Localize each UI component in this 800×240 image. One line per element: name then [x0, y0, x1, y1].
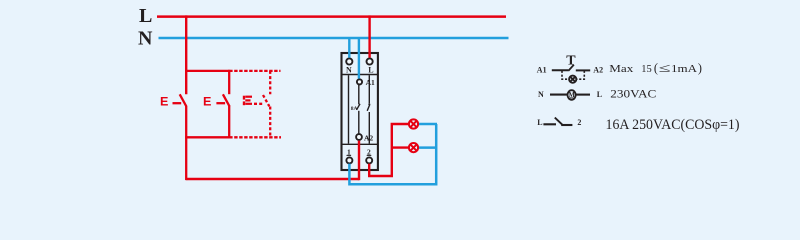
- svg-text:L: L: [139, 5, 152, 27]
- svg-text:A1: A1: [537, 65, 547, 74]
- svg-text:Max: Max: [609, 63, 634, 75]
- svg-text:L: L: [537, 118, 542, 127]
- module internal output contact: [367, 75, 370, 143]
- wire terminal 2 to lamps (red): [369, 124, 409, 176]
- wire terminal A2 down: [358, 141, 360, 181]
- wire L bus (red): [157, 15, 506, 18]
- wire switch top branch (solid): [185, 70, 229, 72]
- terminal L circle: [367, 58, 373, 64]
- svg-text:E: E: [203, 95, 211, 109]
- svg-text:16A 250VAC(COSφ=1): 16A 250VAC(COSφ=1): [606, 117, 740, 133]
- svg-text:(: (: [654, 61, 658, 75]
- relay module body: [342, 53, 378, 170]
- svg-text:L: L: [368, 65, 373, 74]
- svg-text:): ): [698, 61, 702, 75]
- wire L-bus drop to switches: [185, 15, 187, 94]
- legend row1 pushbutton symbol: [552, 65, 590, 71]
- svg-text:230VAC: 230VAC: [610, 86, 656, 100]
- switch E1 contact: [173, 94, 187, 180]
- svg-text:N: N: [538, 90, 544, 99]
- terminal A1 circle: [357, 79, 362, 84]
- switch E3 label (dashed): [244, 96, 252, 106]
- svg-text:A2: A2: [593, 65, 603, 74]
- wire terminal 1 to lamp return (blue): [349, 124, 436, 184]
- legend row1 lamp: [569, 76, 576, 83]
- svg-text:E: E: [160, 95, 168, 109]
- wire switch bottom junction (solid): [185, 136, 229, 138]
- wire bottom run to A2: [186, 178, 359, 180]
- terminal A2 circle: [356, 134, 362, 140]
- wire lamp1 return (blue): [418, 123, 438, 126]
- svg-text:T: T: [566, 54, 576, 69]
- wire L bus to terminal L: [368, 15, 370, 57]
- wire N bus to terminal A1: [358, 38, 360, 79]
- legend row2 motor symbol: [550, 90, 590, 100]
- wire N bus (blue): [159, 37, 509, 40]
- switch E2 contact: [216, 70, 229, 139]
- wire lamp2 feed (red): [392, 146, 410, 148]
- terminal 1 circle: [346, 157, 352, 163]
- module internal N pass line: [348, 75, 350, 143]
- wire N bus to terminal N: [348, 38, 350, 58]
- terminal N circle: [346, 58, 352, 64]
- module internal coil path with contact: [357, 85, 360, 134]
- svg-text:2: 2: [577, 118, 581, 127]
- svg-text:1mA: 1mA: [671, 63, 697, 75]
- lamp 1: [409, 119, 418, 128]
- legend row3 contact symbol: [543, 118, 572, 125]
- legend row1 lamp dashed links: [562, 71, 584, 79]
- svg-text:N: N: [138, 28, 153, 50]
- terminal 2 circle: [366, 157, 372, 163]
- wire lamp2 return (blue): [418, 146, 438, 149]
- module separator bottom: [342, 143, 378, 145]
- svg-text:15: 15: [641, 63, 652, 75]
- svg-text:L: L: [597, 90, 602, 99]
- svg-text:N: N: [346, 65, 352, 74]
- switch E3 contact (dashed): [254, 71, 270, 138]
- module separator top: [342, 74, 378, 76]
- lamp 2: [409, 143, 418, 152]
- wire switch top branch (dashed): [229, 70, 280, 72]
- svg-text:≤: ≤: [659, 61, 671, 75]
- svg-text:8A: 8A: [351, 106, 358, 112]
- wire switch bottom junction (dashed): [229, 136, 281, 138]
- svg-text:A2: A2: [364, 133, 373, 142]
- svg-text:A1: A1: [366, 78, 375, 87]
